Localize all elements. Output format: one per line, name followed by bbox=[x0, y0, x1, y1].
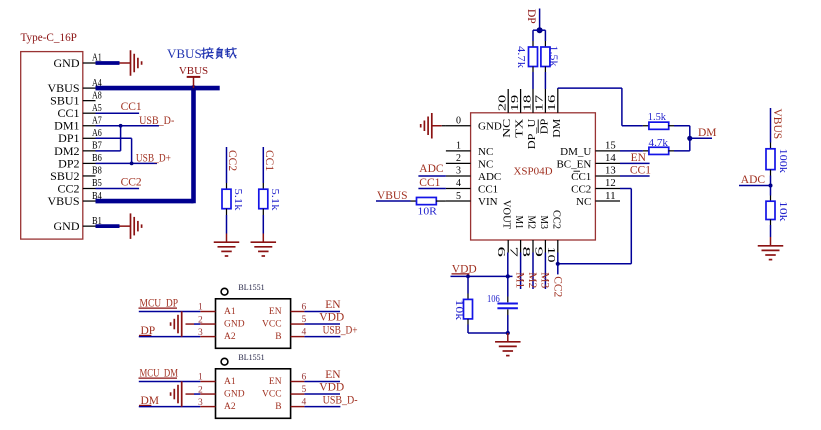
svg-text:18: 18 bbox=[522, 95, 533, 112]
svg-text:M2: M2 bbox=[526, 216, 537, 230]
svg-text:VBUS: VBUS bbox=[167, 46, 202, 61]
svg-text:20: 20 bbox=[498, 95, 509, 112]
svg-text:USB_D+: USB_D+ bbox=[323, 324, 358, 336]
svg-text:VBUS: VBUS bbox=[771, 109, 783, 140]
svg-text:DP_U: DP_U bbox=[527, 118, 538, 149]
svg-text:M3: M3 bbox=[538, 272, 550, 288]
svg-text:DM: DM bbox=[698, 127, 717, 139]
svg-text:15: 15 bbox=[605, 141, 616, 152]
svg-text:XSP04D: XSP04D bbox=[513, 166, 552, 178]
svg-text:CC1: CC1 bbox=[419, 177, 440, 189]
svg-text:USB_D-: USB_D- bbox=[139, 115, 174, 127]
svg-text:1.5k: 1.5k bbox=[548, 46, 560, 68]
svg-text:NC: NC bbox=[576, 196, 591, 208]
svg-text:VCC: VCC bbox=[262, 389, 282, 399]
svg-text:M1: M1 bbox=[513, 216, 524, 230]
svg-text:VDD: VDD bbox=[319, 382, 344, 394]
svg-text:GND: GND bbox=[54, 56, 80, 70]
svg-text:VCC: VCC bbox=[262, 319, 282, 329]
svg-text:A7: A7 bbox=[92, 115, 102, 126]
svg-text:USB_D-: USB_D- bbox=[323, 394, 358, 406]
svg-text:M2: M2 bbox=[526, 272, 538, 288]
svg-text:100k: 100k bbox=[777, 149, 789, 174]
svg-text:VBUS: VBUS bbox=[377, 190, 408, 202]
svg-text:10k: 10k bbox=[453, 300, 465, 321]
svg-text:NC: NC bbox=[502, 118, 513, 137]
svg-text:EN: EN bbox=[269, 377, 282, 387]
svg-text:5.1k: 5.1k bbox=[232, 189, 244, 212]
svg-text:BL1551: BL1551 bbox=[238, 353, 264, 362]
svg-text:VBUS: VBUS bbox=[179, 65, 208, 77]
svg-text:NC: NC bbox=[478, 158, 493, 170]
svg-text:CC1: CC1 bbox=[478, 183, 498, 195]
svg-text:B5: B5 bbox=[92, 178, 102, 189]
svg-text:8: 8 bbox=[520, 247, 531, 258]
svg-text:Type-C_16P: Type-C_16P bbox=[21, 32, 77, 44]
svg-text:A1: A1 bbox=[224, 307, 236, 317]
svg-text:GND: GND bbox=[478, 121, 502, 133]
svg-text:B: B bbox=[275, 402, 281, 412]
svg-text:VOUT: VOUT bbox=[501, 200, 512, 229]
svg-text:CC2: CC2 bbox=[121, 177, 142, 189]
svg-text:ADC: ADC bbox=[741, 174, 766, 186]
svg-text:VIN: VIN bbox=[478, 196, 498, 208]
svg-text:B6: B6 bbox=[92, 153, 102, 164]
svg-text:A1: A1 bbox=[224, 377, 236, 387]
svg-text:2: 2 bbox=[456, 153, 461, 164]
svg-text:A2: A2 bbox=[224, 402, 236, 412]
svg-text:CC2: CC2 bbox=[226, 150, 238, 171]
svg-text:M3: M3 bbox=[538, 216, 549, 230]
svg-text:TX: TX bbox=[515, 118, 526, 138]
svg-text:GND: GND bbox=[224, 389, 245, 399]
svg-text:12: 12 bbox=[605, 178, 616, 189]
svg-text:10: 10 bbox=[545, 247, 556, 263]
svg-text:CC1: CC1 bbox=[263, 150, 275, 171]
svg-text:VDD: VDD bbox=[319, 312, 344, 324]
svg-text:CC1: CC1 bbox=[121, 101, 142, 113]
svg-text:10R: 10R bbox=[418, 207, 437, 218]
svg-text:CC2: CC2 bbox=[571, 183, 591, 195]
svg-text:A6: A6 bbox=[92, 128, 102, 139]
svg-text:CC2: CC2 bbox=[550, 210, 561, 229]
svg-text:A5: A5 bbox=[92, 103, 102, 114]
svg-text:B7: B7 bbox=[92, 141, 102, 152]
svg-text:EN: EN bbox=[325, 299, 341, 311]
svg-text:CC1: CC1 bbox=[630, 164, 651, 176]
svg-text:16: 16 bbox=[547, 95, 558, 112]
svg-text:13: 13 bbox=[605, 166, 616, 177]
svg-text:10k: 10k bbox=[777, 201, 789, 222]
svg-text:DM: DM bbox=[552, 119, 563, 138]
svg-text:DM_U: DM_U bbox=[560, 146, 591, 158]
svg-text:A2: A2 bbox=[224, 332, 236, 342]
svg-text:B8: B8 bbox=[92, 166, 102, 177]
svg-text:B: B bbox=[275, 332, 281, 342]
svg-text:17: 17 bbox=[535, 95, 546, 112]
svg-text:0: 0 bbox=[456, 115, 461, 126]
svg-text:A8: A8 bbox=[92, 90, 102, 101]
svg-text:GND: GND bbox=[224, 319, 245, 329]
svg-text:CC2: CC2 bbox=[551, 276, 563, 297]
svg-text:19: 19 bbox=[510, 95, 521, 112]
svg-text:GND: GND bbox=[54, 219, 80, 233]
svg-text:4.7k: 4.7k bbox=[649, 138, 669, 149]
svg-text:4.7k: 4.7k bbox=[515, 46, 527, 69]
svg-text:ADC: ADC bbox=[478, 171, 501, 183]
svg-text:NC: NC bbox=[478, 146, 493, 158]
svg-text:5: 5 bbox=[456, 191, 461, 202]
svg-text:USB_D+: USB_D+ bbox=[136, 153, 171, 165]
svg-text:6: 6 bbox=[495, 247, 506, 258]
svg-text:4: 4 bbox=[456, 178, 461, 189]
svg-text:3: 3 bbox=[456, 166, 461, 177]
svg-text:11: 11 bbox=[605, 191, 616, 202]
svg-text:VBUS: VBUS bbox=[47, 194, 79, 208]
svg-text:EN: EN bbox=[269, 307, 282, 317]
svg-text:9: 9 bbox=[532, 247, 543, 258]
svg-text:CC1: CC1 bbox=[571, 171, 591, 183]
svg-text:EN: EN bbox=[325, 369, 341, 381]
svg-text:14: 14 bbox=[605, 153, 616, 164]
svg-text:DP: DP bbox=[539, 118, 550, 134]
svg-text:EN: EN bbox=[631, 152, 647, 164]
svg-text:DP: DP bbox=[525, 9, 537, 24]
svg-text:106: 106 bbox=[487, 293, 500, 305]
svg-text:ADC: ADC bbox=[419, 163, 444, 175]
svg-text:1.5k: 1.5k bbox=[648, 112, 667, 123]
svg-text:BL1551: BL1551 bbox=[238, 283, 264, 292]
svg-text:M1: M1 bbox=[514, 272, 526, 288]
svg-text:BC_EN: BC_EN bbox=[556, 158, 591, 170]
svg-text:1: 1 bbox=[456, 141, 461, 152]
svg-text:7: 7 bbox=[508, 247, 519, 257]
svg-text:5.1k: 5.1k bbox=[269, 189, 281, 212]
